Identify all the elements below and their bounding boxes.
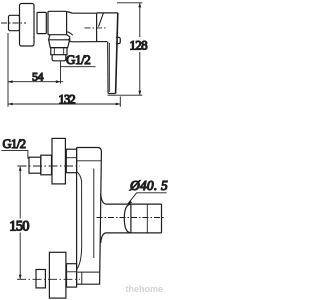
side view: handle top edge [97,12,118,14]
svg-text:128: 128 [130,37,148,52]
dim 150 arrows [19,166,22,279]
side view: aerator ring [51,48,67,55]
side view: union nut [37,12,46,33]
svg-text:G1/2: G1/2 [3,137,26,151]
front view: body top seam line [77,160,102,162]
side view: cap top edge with hook [67,12,97,14]
svg-text:150: 150 [9,219,29,235]
side view: handle front edge double line [107,42,109,94]
dim 132 arrows [8,103,120,106]
front view: boss bottom fillet [101,233,107,243]
side view: handle tab [116,37,120,43]
svg-text:G1/2: G1/2 [66,52,90,67]
side view: handle bottom tip [108,93,116,95]
dia 40.5 leader underline [128,193,167,205]
dim 128 arrows [138,3,141,95]
dim 150 dimension line [19,167,21,279]
dim 54 dimension line [8,81,63,83]
side view: body corner hook arc [67,32,73,36]
front view: bottom outlet seam [78,272,100,284]
side view: G1/2 leader underline [60,66,96,68]
front view: top union nut [29,157,41,173]
svg-text:Ø40. 5: Ø40. 5 [129,178,168,193]
front view: body outline [77,148,102,285]
dim 54 arrows [8,80,61,83]
front view: bottom body nut [67,264,77,287]
side view: wall connector rect [9,15,20,30]
front view: handle boss top edge [107,203,162,205]
front view: bottom body nut facet line [67,271,77,273]
dim 132 dimension line [8,103,120,105]
side view: aerator knurl lines [54,48,63,55]
dim 54 left extension + 132 left extension [7,33,9,107]
side view: cap front face [96,13,98,42]
dia 40.5 leader arrowhead [128,200,133,204]
front view: bottom union nut [36,270,45,288]
front view: boss inner line [146,204,148,233]
front view: boss ellipse bulge [124,204,131,233]
front view: G1/2 leader [2,150,28,158]
front view: body inner vertical line [93,169,95,259]
side view: outlet end cap [52,55,66,61]
side view: handle back edge [116,13,118,94]
dim 128 vertical dimension line [139,3,141,95]
front view: top inlet centerline [18,165,81,167]
front view: top flange escutcheon [52,138,65,184]
front view: bottom inlet centerline [17,278,80,280]
dim 128 bottom extension line [108,94,143,96]
front view: top body nut facet line [66,157,76,159]
front view: top eccentric union [41,155,52,175]
side view: cartridge axis centerline [85,27,107,29]
side view: mixer body [48,11,67,34]
side view: outlet flange trapezoid [49,35,70,40]
svg-text:54: 54 [32,70,44,84]
front view: boss top fillet [101,194,107,204]
side view: inlet connector centerline [1,22,26,24]
side view: wall escutcheon plate [20,4,35,47]
front view: inner tube left wall with flares [77,172,82,269]
front view: top body nut [66,149,76,173]
side view: outlet taper [49,40,70,48]
front view: boss end cap [161,204,163,233]
dim 54 right extension line [60,62,62,84]
svg-text:thehome: thehome [126,284,164,294]
svg-text:132: 132 [59,93,76,107]
side view: cartridge bottom edge [69,39,108,42]
front view: handle boss bottom edge [107,232,162,234]
dim 128 top extension line [117,2,142,4]
front view: boss centerline [97,217,166,219]
dim 132 right extension line [119,97,121,107]
side view: handle front chamfer [99,13,104,27]
front view: bottom flange escutcheon [49,252,66,298]
